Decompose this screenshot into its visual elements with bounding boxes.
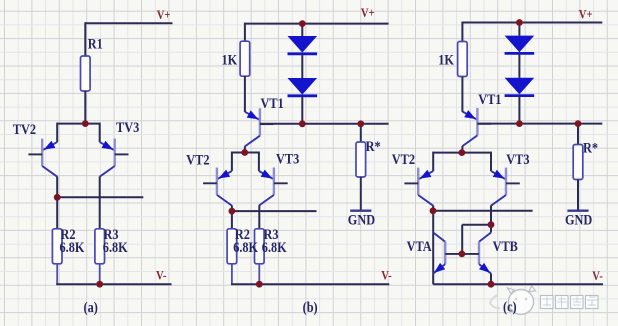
wire emitter rail (a) (57, 123, 99, 125)
net label V+ (b) (361, 5, 375, 20)
wire VT1 collector down (b) (244, 146, 246, 152)
net label V- (b) (381, 267, 391, 282)
svg-text:R1: R1 (88, 35, 103, 51)
wire VT1 collector down (c) (461, 146, 463, 153)
wire VTA-VTB base link (445, 253, 479, 255)
resistor R2 (b) (227, 229, 237, 264)
svg-text:VT3: VT3 (276, 150, 299, 166)
wire mirror base vertical (c) (461, 225, 463, 254)
svg-text:6.8K: 6.8K (103, 239, 128, 255)
label VT1 (b) (261, 95, 284, 111)
transistor VT1 (c) (462, 108, 491, 146)
ground GND (c) (565, 211, 592, 228)
svg-text:V+: V+ (157, 7, 171, 22)
junction TV2 collector node (54, 194, 61, 201)
resistor R3 (a) (95, 229, 105, 264)
wire V+ rail (a) (85, 22, 172, 24)
svg-text:(b): (b) (303, 299, 318, 316)
wire R3 bottom lead (b) (258, 264, 260, 284)
label R1 (88, 35, 103, 51)
transistor VT2 (c) (404, 152, 433, 206)
junction VTB on V- rail (c) (488, 281, 495, 288)
transistor VT3 (b) (259, 152, 288, 206)
svg-text:VT2: VT2 (392, 151, 415, 167)
label 1K (b) (222, 52, 238, 68)
junction R* tap (c) (575, 120, 582, 127)
svg-text:1K: 1K (222, 52, 238, 68)
wire diode2 to base (b) (301, 96, 303, 124)
junction diodes on V+ rail (b) (299, 20, 306, 27)
net label V- (c) (592, 268, 602, 283)
net label V+ (c) (579, 7, 593, 22)
ground GND (b) (348, 211, 375, 228)
svg-text:V-: V- (381, 267, 391, 282)
svg-text:VT2: VT2 (186, 151, 209, 167)
wire VT2 collector to V- (c) (432, 206, 434, 285)
label VT3 (b) (276, 150, 299, 166)
wire VT1 base rail (c) (477, 123, 602, 125)
wire TV3 collector to R3 (99, 177, 101, 229)
svg-text:R*: R* (583, 139, 598, 155)
junction diode column base (c) (516, 120, 523, 127)
wire VT3 collector down (b) (258, 205, 260, 228)
diode D1 (b) (288, 36, 318, 54)
svg-text:6.8K: 6.8K (60, 239, 85, 255)
svg-text:6.8K: 6.8K (262, 239, 287, 255)
label TV3 (116, 119, 139, 135)
svg-text:6.8K: 6.8K (233, 239, 258, 255)
transistor VT2 (b) (203, 152, 232, 206)
junction node R1-emitters (a) (82, 120, 89, 127)
junction R3 on V- rail (b) (256, 281, 263, 288)
watermark cat logo (490, 286, 536, 315)
junction R3 on V- rail (a) (96, 281, 103, 288)
net label V- (a) (156, 267, 166, 282)
resistor R* (c) (573, 145, 583, 180)
wire emitter rail (c) (433, 152, 491, 154)
net label V+ (a) (157, 7, 171, 22)
svg-text:1K: 1K (438, 51, 454, 67)
wire TV2 collector to R2 (56, 197, 58, 229)
junction R* tap (b) (357, 120, 364, 127)
value 6.8K of R3 (b) (262, 239, 287, 255)
wire R* to ground (b) (360, 177, 362, 210)
label VT1 (c) (478, 91, 501, 107)
wire V- rail (c) (433, 283, 603, 285)
diode D2 (b) (288, 78, 318, 96)
wire between diodes (b) (301, 54, 303, 78)
label R* (c) (583, 139, 598, 155)
junction VT1 collector node (b) (241, 149, 248, 156)
caption (c) (503, 298, 517, 315)
wire R* top lead (b) (360, 124, 362, 142)
transistor VT1 (b) (245, 108, 274, 146)
svg-text:VT1: VT1 (261, 95, 284, 111)
resistor 1K (b) (240, 41, 250, 76)
label VT3 (c) (506, 151, 529, 167)
resistor R2 (a) (52, 229, 62, 264)
value 6.8K of R2 (a) (60, 239, 85, 255)
label R3 (a) (104, 226, 119, 242)
wire output (c) (433, 210, 532, 212)
junction VT3-VTB node (c) (488, 221, 495, 228)
label 1K (c) (438, 51, 454, 67)
svg-text:(a): (a) (84, 299, 98, 316)
label TV2 (13, 121, 36, 137)
resistor R1 (81, 56, 91, 91)
wire R3 bottom lead (a) (99, 264, 101, 284)
wire V- rail (b) (231, 283, 389, 285)
wire VT2 collector down (b) (231, 205, 233, 228)
resistor 1K (c) (458, 42, 468, 77)
label R2 (b) (235, 226, 250, 242)
wire R2 bottom lead (a) (56, 264, 58, 284)
svg-text:GND: GND (348, 211, 375, 227)
wire 1K top lead (b) (244, 23, 246, 42)
svg-text:V-: V- (592, 268, 602, 283)
wire diode1 top lead (b) (301, 24, 303, 36)
svg-text:R*: R* (366, 138, 381, 154)
value 6.8K of R3 (a) (103, 239, 128, 255)
svg-text:TV3: TV3 (116, 119, 139, 135)
svg-text:(c): (c) (503, 298, 517, 315)
svg-text:VT3: VT3 (506, 151, 529, 167)
svg-text:VT1: VT1 (478, 91, 501, 107)
junction VT1 collector node (c) (459, 149, 466, 156)
wire output (b) (232, 210, 317, 212)
wire TV2 collector down (56, 177, 58, 198)
wire 1K to VT1 emitter (c) (461, 77, 463, 113)
label VTA (407, 238, 432, 254)
junction diode column base (b) (299, 120, 306, 127)
watermark text 落木青云 (541, 296, 599, 309)
wire VT1 base rail (b) (260, 123, 389, 125)
label R* (b) (366, 138, 381, 154)
wire diode1 top lead (c) (518, 23, 520, 36)
label VT2 (c) (392, 151, 415, 167)
svg-text:VTB: VTB (493, 238, 518, 254)
junction VT2 collector node (c) (430, 207, 437, 214)
transistor TV2 (28, 123, 57, 177)
wire VTB emitter to V- (c) (490, 274, 492, 285)
wire diode2 to base (c) (518, 96, 520, 124)
label R3 (b) (264, 226, 279, 242)
wire V+ rail (c) (462, 22, 602, 24)
wire emitter rail (b) (232, 152, 259, 154)
label VTB (493, 238, 518, 254)
caption (b) (303, 299, 318, 316)
wire 1K top lead (c) (461, 22, 463, 42)
transistor VTB (479, 233, 491, 274)
transistor TV3 (100, 123, 129, 177)
caption (a) (84, 299, 98, 316)
wire R1 top lead (84, 22, 86, 56)
svg-text:GND: GND (565, 211, 592, 227)
junction VT2 collector node (b) (229, 208, 236, 215)
wire R1 bottom to node (84, 91, 86, 124)
junction mirror bases (459, 251, 466, 258)
value 6.8K of R2 (b) (233, 239, 258, 255)
wire 1K to VT1 emitter (b) (244, 76, 246, 112)
wire V- rail (a) (56, 283, 171, 285)
resistor R* (b) (356, 142, 366, 177)
svg-text:V+: V+ (579, 7, 593, 22)
label VT2 (b) (186, 151, 209, 167)
wire between diodes (c) (518, 54, 520, 78)
wire mirror base horizontal (c) (462, 224, 491, 226)
svg-text:V-: V- (156, 267, 166, 282)
wire R* to ground (c) (577, 180, 579, 211)
svg-text:TV2: TV2 (13, 121, 36, 137)
junction diodes on V+ rail (c) (516, 19, 523, 26)
diode D2 (c) (505, 78, 535, 96)
resistor R3 (b) (255, 229, 265, 264)
diode D1 (c) (505, 36, 535, 54)
svg-text:VTA: VTA (407, 238, 432, 254)
wire R* top lead (c) (577, 124, 579, 145)
wire VT3 collector down (c) (490, 206, 492, 233)
label R2 (a) (61, 226, 76, 242)
transistor VTA (433, 233, 445, 274)
wire V+ rail (b) (245, 23, 389, 25)
wire R2 bottom lead (b) (231, 264, 233, 284)
wire output (a) (57, 196, 143, 198)
svg-text:V+: V+ (361, 5, 375, 20)
transistor VT3 (c) (491, 152, 520, 206)
